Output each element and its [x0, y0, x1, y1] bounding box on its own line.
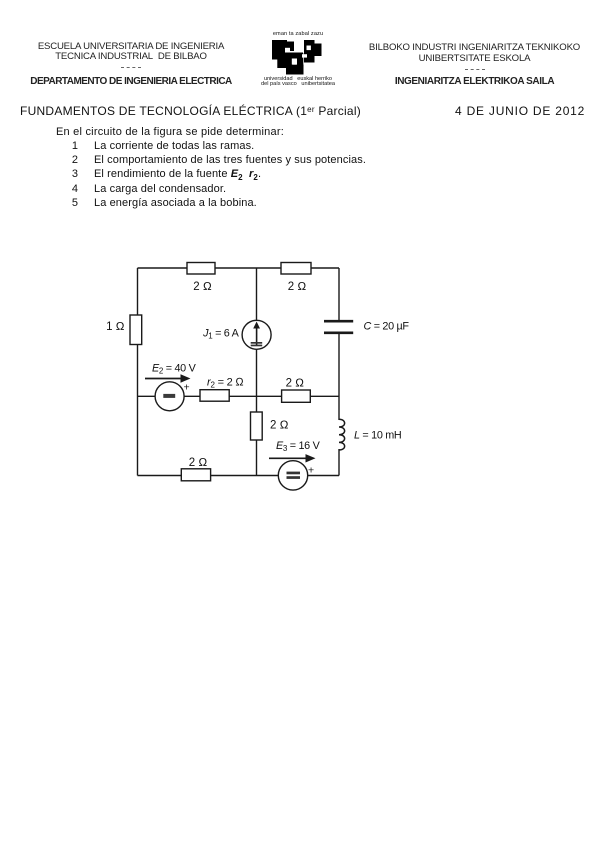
capacitor C [324, 320, 353, 323]
svg-text:2 Ω: 2 Ω [193, 281, 212, 293]
circuit schematic [90, 240, 430, 510]
svg-text:2 Ω: 2 Ω [288, 281, 307, 293]
resistor 2Ω bottom [181, 469, 210, 481]
voltage source E3 [278, 461, 307, 490]
university logo UPV/EHU [254, 31, 342, 87]
resistor 1Ω left [130, 315, 142, 345]
svg-text:E3 = 16 V: E3 = 16 V [276, 440, 321, 453]
wire middle vertical [256, 268, 258, 476]
header left: school name [21, 42, 241, 88]
svg-text:E2 = 40 V: E2 = 40 V [152, 363, 197, 376]
svg-text:C = 20 µF: C = 20 µF [364, 321, 410, 333]
svg-text:2 Ω: 2 Ω [270, 420, 289, 432]
title [20, 104, 361, 118]
arrow E2 [145, 378, 183, 380]
wire top [138, 267, 340, 269]
resistor 2Ω middle-right [282, 390, 311, 402]
resistor 2Ω top-left [187, 263, 215, 275]
svg-text:+: + [308, 465, 314, 477]
svg-text:J1 = 6 A: J1 = 6 A [202, 327, 239, 340]
svg-text:r2 = 2 Ω: r2 = 2 Ω [207, 377, 244, 390]
wire right upper [338, 268, 340, 321]
date [455, 104, 585, 118]
svg-text:2 Ω: 2 Ω [189, 457, 208, 469]
numbered list [68, 140, 78, 152]
wire bottom [138, 475, 340, 477]
wire right lower [338, 449, 340, 476]
resistor 2Ω top-right [281, 263, 311, 275]
intro line [56, 126, 284, 138]
svg-text:L = 10 mH: L = 10 mH [354, 430, 401, 442]
resistor 2Ω middle vertical [251, 412, 263, 440]
svg-text:1 Ω: 1 Ω [106, 321, 125, 333]
svg-text:+: + [184, 382, 190, 394]
wire middle horizontal [138, 395, 340, 397]
arrow E3 [269, 457, 308, 459]
wire right mid [338, 333, 340, 420]
voltage source E2 [155, 382, 184, 411]
resistor r2 [200, 390, 229, 402]
header right: school name basque [364, 42, 585, 88]
wire left [137, 268, 139, 476]
current source J1 [242, 320, 271, 349]
inductor L [339, 419, 345, 450]
svg-text:2 Ω: 2 Ω [286, 378, 305, 390]
logo symbol [271, 39, 325, 75]
